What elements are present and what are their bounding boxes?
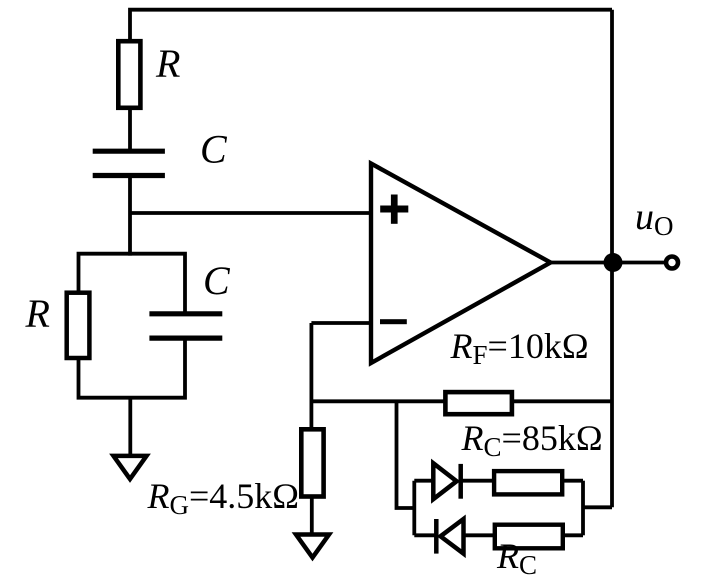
svg-text:R: R [25, 291, 50, 336]
diode D2 [436, 519, 463, 554]
svg-text:C: C [203, 258, 231, 303]
ground G2 [296, 535, 329, 558]
wire branch down from feedback [397, 401, 415, 508]
wire feedback horizontal [311, 399, 612, 403]
wire D2 to RC2 [464, 533, 495, 537]
wire to diode D1 [414, 479, 433, 483]
resistor RC2 [495, 525, 563, 549]
op-amp minus sign [380, 319, 407, 324]
wire R1 to C1 [128, 109, 132, 152]
resistor R1 (top left R) [118, 41, 140, 108]
resistor R3 [494, 471, 562, 494]
wire diode network left rail [412, 481, 416, 536]
resistor R2 (parallel R) [67, 293, 90, 358]
capacitor C1 bottom plate [93, 173, 165, 178]
capacitor C2 bottom plate [149, 336, 222, 341]
wire network to main rail [583, 505, 612, 509]
svg-text:RC=85kΩ: RC=85kΩ [461, 418, 603, 462]
wire inverting input [311, 321, 371, 325]
op-amp U1 [371, 164, 551, 364]
ground G1 [114, 456, 147, 479]
resistor RG [301, 429, 323, 496]
wire R3 to right rail [562, 479, 583, 483]
svg-text:RG=4.5kΩ: RG=4.5kΩ [147, 476, 300, 520]
svg-text:uO: uO [635, 196, 674, 241]
wire top horizontal [130, 10, 612, 42]
wire RG to ground [310, 497, 314, 535]
wire C1 down to node and RC loop [128, 176, 132, 256]
wire right rail [610, 10, 614, 508]
wire D1 to R3 [461, 479, 494, 483]
wire loop to ground [128, 398, 132, 456]
wire noninverting input [130, 211, 371, 215]
resistor RF [445, 392, 512, 414]
wire RC loop bottom [79, 338, 186, 398]
node output junction [604, 253, 623, 272]
wire output [551, 261, 666, 265]
output terminal [666, 257, 678, 269]
wire inverting node down [309, 323, 313, 429]
wire diode network right rail [581, 481, 585, 536]
diode D1 [433, 463, 460, 499]
op-amp plus sign [380, 195, 408, 224]
wire RC2 to right rail [563, 533, 583, 537]
svg-text:C: C [200, 127, 228, 172]
wire RC loop top [79, 254, 186, 314]
svg-text:RF=10kΩ: RF=10kΩ [450, 326, 589, 370]
wire to diode D2 [414, 533, 436, 537]
capacitor C1 top plate [93, 149, 165, 154]
capacitor C2 top plate [149, 311, 222, 316]
svg-text:R: R [155, 41, 180, 86]
